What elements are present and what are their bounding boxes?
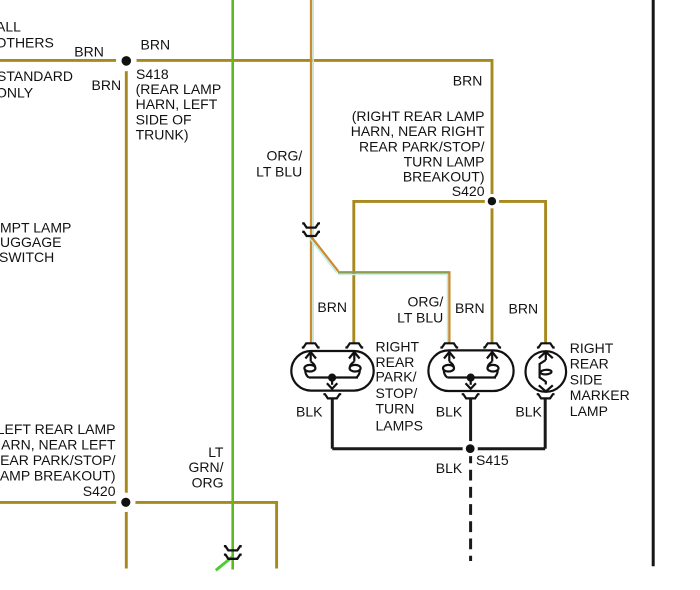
connector cup bottom: [323, 394, 341, 398]
svg-text:UGGAGE: UGGAGE: [0, 234, 61, 250]
svg-text:RIGHT: RIGHT: [570, 340, 614, 356]
wire BRN bottom horizontal y=502 + corner down: [0, 502, 277, 568]
connector hat left pin: [440, 343, 458, 347]
wire LT GRN diagonal at bottom breakout: [216, 557, 233, 571]
down arrow to ground pin: [470, 381, 472, 385]
svg-text:SIDE OF: SIDE OF: [136, 111, 192, 127]
wire BRN left vertical x=126: [125, 60, 128, 568]
svg-text:HARN, LEFT: HARN, LEFT: [136, 96, 218, 112]
svg-text:LT: LT: [208, 444, 224, 460]
connector hat right pin: [345, 343, 363, 347]
connector hat right pin: [483, 343, 501, 347]
wire ORG/LT BLU horizontal y=272 (blended olive with stripe): [338, 274, 450, 276]
svg-text:TURN: TURN: [376, 401, 415, 417]
svg-text:OTHERS: OTHERS: [0, 34, 54, 50]
halo S418: [116, 51, 137, 72]
svg-text:SWITCH: SWITCH: [0, 249, 54, 265]
svg-text:ORG/: ORG/: [408, 293, 444, 309]
filament curl: [540, 360, 546, 382]
svg-text:REAR PARK/STOP/: REAR PARK/STOP/: [359, 138, 485, 154]
svg-text:TURN LAMP BREAKOUT): TURN LAMP BREAKOUT): [0, 467, 116, 483]
svg-text:BRN: BRN: [92, 77, 122, 93]
connector hat top: [537, 343, 555, 347]
halo S415: [463, 441, 478, 456]
svg-text:ALL: ALL: [0, 18, 21, 34]
halo S420 right: [485, 194, 499, 208]
svg-text:HARN, NEAR RIGHT: HARN, NEAR RIGHT: [351, 123, 485, 139]
wire BRN mid horizontal y=201 with drops: [354, 201, 546, 343]
svg-text:BRN: BRN: [509, 301, 539, 317]
svg-text:LT BLU: LT BLU: [256, 163, 302, 179]
wire ORG/LT BLU diagonal from breakout: [310, 238, 337, 273]
breakout symbol on LT GRN/ORG wire: [224, 546, 242, 559]
svg-text:LAMPS: LAMPS: [376, 417, 423, 433]
node S420 left: [121, 498, 130, 507]
svg-text:REAR PARK/STOP/: REAR PARK/STOP/: [0, 452, 116, 468]
internal bus: [447, 376, 496, 378]
svg-text:SIDE: SIDE: [570, 371, 603, 387]
svg-text:TRUNK): TRUNK): [136, 127, 189, 143]
svg-text:S415: S415: [476, 452, 509, 468]
node S420 right: [488, 197, 496, 205]
svg-text:STOP/: STOP/: [376, 385, 418, 401]
svg-text:BLK: BLK: [296, 403, 323, 419]
svg-text:RIGHT: RIGHT: [376, 339, 420, 355]
svg-text:BRN: BRN: [74, 43, 104, 59]
filament arrow down: [545, 381, 547, 385]
wire BRN top horizontal + right vertical to lamp2: [0, 60, 492, 343]
svg-text:BRN: BRN: [141, 36, 171, 52]
svg-text:TURN LAMP: TURN LAMP: [404, 154, 485, 170]
svg-text:MARKER: MARKER: [570, 387, 630, 403]
wire BLK dashed below S415: [469, 453, 472, 562]
wire BLK lamp2 ground: [469, 399, 472, 449]
wire ORG/LT BLU vertical x=311 (org): [310, 0, 312, 343]
lamp RIGHT REAR PARK/STOP/TURN LAMPS (second stadium): [428, 343, 513, 398]
svg-text:BLK: BLK: [436, 403, 463, 419]
filament right: [349, 352, 360, 359]
connector hat left pin: [302, 343, 320, 347]
wire ORG/LT BLU vertical x=311 (lt blu stripe): [312, 0, 314, 343]
svg-text:STANDARD: STANDARD: [0, 68, 73, 84]
wire LT GRN/ORG vertical x=233: [231, 0, 234, 570]
breakout symbol on ORG/LT BLU wire: [302, 223, 320, 236]
svg-text:(REAR LAMP: (REAR LAMP: [136, 81, 222, 97]
svg-text:BLK: BLK: [515, 403, 542, 419]
connector cup bottom: [462, 394, 480, 398]
node lamp1 center: [328, 374, 336, 382]
svg-text:PARK/: PARK/: [376, 368, 417, 384]
wire BLK lamp3 ground: [544, 399, 547, 449]
svg-text:(LEFT REAR LAMP: (LEFT REAR LAMP: [0, 421, 116, 437]
wire BLK right vertical x=653: [652, 0, 655, 566]
lamp RIGHT REAR PARK/STOP/TURN LAMPS (left stadium): [291, 343, 373, 398]
svg-text:REAR: REAR: [570, 356, 609, 372]
svg-text:GRN/: GRN/: [189, 459, 224, 475]
node S418: [122, 56, 132, 66]
wire BLK lamp1 ground: [331, 399, 334, 449]
svg-text:ONLY: ONLY: [0, 85, 34, 101]
internal bus: [309, 376, 358, 378]
svg-text:BRN: BRN: [453, 72, 483, 88]
halo S420 left: [116, 493, 135, 512]
svg-text:BRN: BRN: [455, 300, 485, 316]
svg-text:LT BLU: LT BLU: [397, 309, 443, 325]
svg-text:BRN: BRN: [317, 299, 347, 315]
down arrow to ground pin: [331, 381, 333, 385]
node lamp2 center: [467, 374, 475, 382]
lamp RIGHT REAR SIDE MARKER LAMP (circle): [526, 343, 567, 398]
svg-text:ORG/: ORG/: [267, 147, 303, 163]
filament arrow up: [539, 352, 553, 358]
svg-text:ORG: ORG: [192, 475, 224, 491]
svg-text:HARN, NEAR LEFT: HARN, NEAR LEFT: [0, 436, 116, 452]
filament left: [444, 352, 455, 359]
svg-text:LAMP: LAMP: [570, 403, 608, 419]
filament left: [305, 352, 316, 359]
node S415: [466, 444, 475, 453]
svg-text:BLK: BLK: [436, 460, 463, 476]
svg-text:MPT LAMP: MPT LAMP: [0, 219, 71, 235]
svg-text:S418: S418: [136, 66, 169, 82]
filament right: [487, 352, 498, 359]
svg-text:S420: S420: [452, 183, 485, 199]
wire BLK ground bus y=449: [332, 447, 545, 450]
svg-text:S420: S420: [83, 483, 116, 499]
wire ORG/LT BLU vertical x=449 to lamp2: [447, 275, 449, 344]
svg-text:(RIGHT REAR LAMP: (RIGHT REAR LAMP: [352, 108, 485, 124]
connector cup bottom: [537, 394, 555, 398]
